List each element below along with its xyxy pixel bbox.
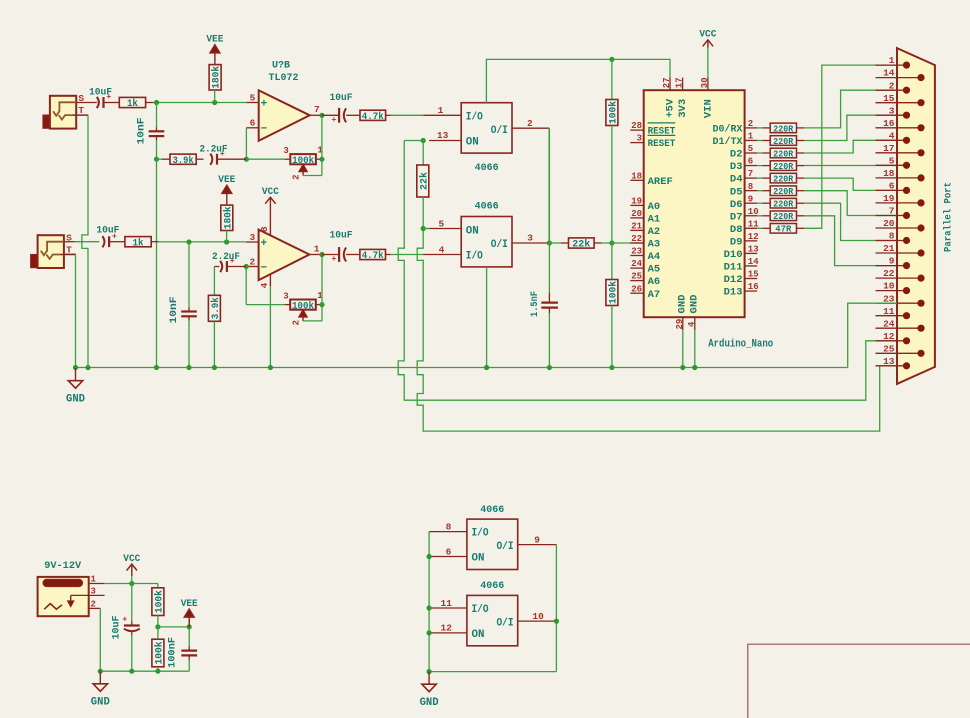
pin 30 - VIN: [700, 77, 715, 118]
resistor R2 180k (ch1 bias): [209, 65, 223, 90]
label C5 value 2.2uF: [200, 143, 228, 155]
pin 7 - U1 output: [310, 104, 322, 115]
analog switch U4 4066 (ch2): [461, 200, 512, 267]
svg-text:4: 4: [889, 130, 895, 141]
resistor R16 1k (ch2): [125, 237, 151, 250]
pin 4 - U2 V- supply: [259, 274, 271, 288]
svg-text:D0/RX: D0/RX: [713, 124, 744, 136]
node - spare tie junction y=608: [427, 605, 432, 610]
svg-text:6: 6: [446, 546, 452, 557]
svg-text:4: 4: [687, 321, 697, 327]
resistor R25 47R (D8 line): [770, 224, 796, 235]
pin 9 - parallel port: [876, 256, 911, 270]
resistor R22 220R (D5 line): [770, 186, 796, 197]
svg-text:14: 14: [748, 257, 759, 267]
wire - VEE node to R15: [157, 627, 159, 639]
wire - VEE symbol stem: [188, 617, 190, 627]
svg-text:A7: A7: [648, 289, 661, 301]
wire - 220R output stub: [797, 127, 805, 129]
wire - D2 net to port pin 4: [804, 140, 897, 153]
svg-text:24: 24: [883, 318, 895, 329]
node - ground rail junction x=549.4: [547, 365, 552, 370]
node - spare output junction: [554, 619, 559, 624]
resistor R8 3.9k (ch2): [208, 295, 222, 321]
pin 17 - 3V3: [675, 77, 690, 117]
wire - U1 output to C7: [322, 114, 339, 116]
wire - D6 pin to 220R: [757, 202, 770, 204]
svg-text:3: 3: [283, 291, 288, 301]
wire - GND pin 29 to rail: [682, 330, 684, 367]
pin 16 - parallel port: [876, 118, 925, 132]
svg-text:4.7k: 4.7k: [362, 111, 384, 123]
label C11 value 100nF: [166, 637, 178, 668]
svg-text:10uF: 10uF: [110, 616, 122, 640]
svg-text:+: +: [112, 232, 117, 241]
wire - C5 to feedback node: [217, 158, 246, 160]
wire - R11 to Arduino A3: [594, 242, 644, 244]
node - VEE junction right: [187, 624, 192, 629]
wire - D6 net to port pin 8: [804, 203, 897, 240]
svg-text:ON: ON: [472, 553, 485, 565]
capacitor C9 1.5nF: [541, 303, 558, 308]
wire - VCC symbol to node: [131, 576, 133, 583]
label C3 value 10nF: [136, 118, 148, 145]
capacitor C2 10uF (ch2 input coupling): [102, 232, 117, 247]
svg-text:13: 13: [748, 245, 759, 255]
wire - 220R output stub: [797, 215, 805, 217]
wire - C7 to R5: [346, 114, 360, 116]
wire - D1 pin to 220R: [757, 140, 770, 142]
pin 2 - U3 O/I output stub: [512, 118, 549, 129]
wire - RV2 pin3 stub: [285, 304, 291, 306]
wire - feedback to U1 output: [321, 115, 323, 159]
wire - 220R output stub: [797, 165, 805, 167]
svg-text:18: 18: [631, 171, 642, 181]
svg-text:220R: 220R: [773, 148, 793, 159]
svg-text:1: 1: [438, 105, 444, 116]
power symbol VCC (Arduino VIN): [699, 29, 717, 48]
wire - 220R output stub: [797, 140, 805, 142]
svg-text:24: 24: [631, 259, 642, 269]
wire - spare section ground link: [429, 671, 556, 673]
wire - R8 to ground rail: [213, 321, 215, 367]
wire - C1 to R1: [104, 102, 120, 104]
svg-text:O/I: O/I: [497, 541, 514, 553]
svg-text:100k: 100k: [154, 590, 166, 613]
resistor R3 3.9k (ch1): [170, 154, 196, 167]
wire - D7 net to port pin 9: [804, 216, 897, 266]
wire - control net B vertical (to parallel port pin 13) with hops: [417, 229, 897, 432]
svg-text:Arduino_Nano: Arduino_Nano: [708, 339, 773, 351]
analog switch U6 4066 (spare): [467, 504, 518, 570]
op-amp U2 TL072 unit A: [259, 230, 310, 281]
svg-text:11: 11: [441, 598, 453, 609]
pin 5 - Arduino D2: [730, 144, 757, 161]
svg-text:TL072: TL072: [269, 72, 299, 84]
svg-text:D10: D10: [724, 249, 743, 261]
svg-text:GND: GND: [690, 295, 701, 314]
svg-text:7: 7: [889, 206, 895, 217]
wire - U4 VSS down to ground rail: [486, 267, 488, 368]
pin 20 - Arduino A1: [630, 209, 660, 226]
wire - J4 sleeve to ground rail: [99, 608, 101, 671]
node - ground rail junction x=88: [85, 365, 90, 370]
ground symbol GND (input stage): [66, 368, 85, 406]
node - ch2 10nF junction: [186, 239, 191, 244]
svg-text:25: 25: [631, 272, 642, 282]
wire - ON net to left: [404, 140, 423, 142]
svg-text:+: +: [261, 98, 268, 110]
svg-text:30: 30: [700, 77, 710, 88]
svg-text:29: 29: [675, 319, 685, 330]
svg-text:9: 9: [748, 194, 753, 204]
wire - R1 to op-amp U1 noninverting input: [146, 102, 247, 104]
svg-text:2: 2: [889, 80, 895, 91]
pin 14 - Arduino D11: [724, 257, 760, 274]
wire - R16 to op-amp U2 +input: [151, 241, 246, 243]
svg-text:10nF: 10nF: [168, 297, 180, 324]
svg-text:4: 4: [259, 282, 270, 288]
svg-text:RESET: RESET: [648, 138, 676, 150]
pin 24 - parallel port: [876, 318, 925, 332]
wire - R15 to ground rail: [157, 667, 159, 671]
resistor R24 220R (D7 line): [770, 211, 796, 222]
svg-text:D11: D11: [724, 262, 743, 274]
svg-text:1.5nF: 1.5nF: [529, 291, 541, 317]
node - ch1 feedback left junction: [244, 157, 249, 162]
pin 13 - U3 ON control: [429, 130, 461, 141]
node - ground rail junction x=682.8: [680, 365, 685, 370]
wire - U1 inverting input to feedback node: [245, 128, 247, 159]
svg-text:GND: GND: [91, 697, 110, 709]
wire - U2 pin4 down to ground rail: [269, 286, 271, 368]
svg-text:+: +: [331, 116, 336, 125]
capacitor C6 2.2uF (ch2): [220, 257, 235, 272]
label C1 value 10uF: [89, 86, 112, 98]
node - supply ground junction x=157.9: [155, 669, 160, 674]
svg-text:2: 2: [291, 320, 301, 325]
pin 18 - parallel port: [876, 168, 925, 181]
wire - 220R output stub: [797, 202, 805, 204]
svg-text:I/O: I/O: [472, 604, 489, 616]
capacitor C8 10uF (ch2 output coupling): [331, 247, 346, 264]
node - ground rail junction x=694.8: [692, 365, 697, 370]
node - spare tie junction y=556.5: [427, 554, 432, 559]
svg-text:10uF: 10uF: [330, 229, 353, 241]
svg-text:VCC: VCC: [262, 186, 280, 198]
pin 13 - Arduino D10: [724, 245, 759, 262]
svg-text:D2: D2: [730, 149, 743, 161]
pin 1 - U2 output: [309, 243, 322, 254]
svg-text:15: 15: [883, 93, 895, 104]
svg-text:19: 19: [631, 197, 642, 207]
svg-text:100k: 100k: [154, 642, 166, 665]
pin 24 - Arduino A5: [630, 259, 660, 276]
svg-text:5: 5: [439, 218, 445, 229]
svg-text:22: 22: [883, 268, 895, 279]
pin 12 - Arduino D9: [730, 232, 759, 249]
power symbol VEE (ch2 bias): [218, 174, 235, 205]
audio jack connector J2 (channel 2 input): [31, 233, 76, 269]
svg-text:6: 6: [250, 118, 256, 129]
svg-text:13: 13: [883, 356, 895, 367]
pin 9 - Arduino D6: [730, 194, 757, 211]
svg-text:4.7k: 4.7k: [362, 250, 384, 262]
pin 3 - J4 switch: [71, 587, 105, 597]
svg-text:22: 22: [631, 234, 642, 244]
pin 22 - parallel port: [876, 268, 925, 282]
svg-text:A3: A3: [648, 239, 661, 251]
svg-text:10: 10: [748, 207, 759, 217]
ground symbol GND (spare switches): [420, 672, 439, 710]
wire - VEE node link: [158, 626, 189, 628]
wire - R2 to ch1 input node: [214, 90, 216, 103]
wire - VEE node down to C11: [188, 627, 190, 651]
pin 7 - Arduino D4: [730, 169, 757, 186]
svg-text:12: 12: [748, 232, 759, 242]
svg-text:8: 8: [259, 226, 270, 232]
wire - R14 to VEE node: [157, 616, 159, 627]
svg-text:+: +: [260, 238, 267, 250]
pin 6 - Arduino D3: [730, 157, 757, 174]
svg-text:12: 12: [883, 331, 895, 342]
svg-text:14: 14: [883, 68, 895, 79]
resistor R12 100k (divider top): [606, 100, 620, 126]
svg-text:100nF: 100nF: [166, 637, 178, 668]
resistor R1 1k: [119, 97, 145, 110]
node - supply ground junction x=131.8: [129, 669, 134, 674]
wire - VCC to VIN pin: [707, 48, 709, 78]
svg-text:2: 2: [292, 174, 302, 179]
wire - VCC node down to C10: [131, 584, 133, 622]
node - ground rail junction x=156.5: [154, 365, 159, 370]
svg-text:−: −: [261, 123, 268, 135]
resistor R11 22k: [569, 238, 595, 251]
resistor R10 4.7k (ch2): [360, 249, 386, 262]
wire - GND pin 4 to rail: [694, 330, 696, 367]
svg-text:3: 3: [889, 105, 895, 116]
resistor R13 100k (divider bottom): [606, 280, 620, 306]
svg-text:8: 8: [748, 182, 753, 192]
wire - 220R output stub: [797, 190, 805, 192]
pin 3 - U4 O/I output: [512, 233, 549, 244]
svg-text:18: 18: [883, 168, 895, 179]
svg-text:I/O: I/O: [472, 528, 489, 540]
wire - J1 sleeve S to C1: [76, 102, 97, 104]
svg-text:O/I: O/I: [497, 618, 514, 630]
svg-text:I/O: I/O: [466, 111, 483, 123]
svg-text:3.9k: 3.9k: [173, 155, 194, 167]
svg-text:10: 10: [532, 611, 544, 622]
wire - D8 pin to 47R: [757, 227, 770, 229]
svg-text:10: 10: [883, 281, 895, 292]
svg-text:22k: 22k: [572, 239, 590, 251]
pin 2 - J4 sleeve: [89, 600, 101, 610]
node - ground rail junction x=75.5: [73, 365, 78, 370]
wire - J2 sleeve to C2: [64, 241, 99, 243]
pin 21 - Arduino A2: [630, 222, 660, 239]
wire - R5 to switch U3 I/O: [386, 114, 424, 116]
svg-text:3: 3: [527, 233, 533, 244]
pin 11 - U7 I/O: [429, 598, 467, 609]
svg-text:220R: 220R: [773, 136, 793, 147]
wire - RV2 wiper return: [303, 305, 322, 321]
svg-text:D13: D13: [724, 287, 743, 299]
pin 1 - Arduino D1/TX: [713, 132, 758, 149]
pin 23 - Arduino A4: [630, 247, 660, 264]
svg-text:20: 20: [631, 209, 642, 219]
wire - C8 to R10: [346, 254, 360, 256]
wire - ch2 feedback vertical: [245, 267, 247, 305]
svg-text:4066: 4066: [480, 580, 504, 592]
pin 2 - U2 -input: [246, 256, 258, 267]
pin 9 - U6 O/I: [518, 534, 557, 545]
node - A3 / divider junction: [609, 240, 614, 245]
wire - 220R output stub: [797, 177, 805, 179]
wire - C6 to U2 -input: [227, 266, 246, 268]
node - ch1 3.9k node: [154, 157, 159, 162]
svg-text:4066: 4066: [480, 504, 504, 516]
node - U2 output junction: [319, 252, 324, 257]
pin 20 - parallel port: [876, 218, 925, 231]
svg-text:VCC: VCC: [699, 29, 717, 41]
svg-text:+: +: [331, 255, 336, 264]
resistor R21 220R (D4 line): [770, 173, 796, 184]
pin 27 - +5V: [662, 77, 677, 117]
svg-text:A0: A0: [648, 201, 661, 213]
svg-text:220R: 220R: [773, 199, 793, 210]
label C4 value 10nF: [168, 297, 180, 324]
analog switch U7 4066 (spare): [467, 580, 518, 646]
svg-text:4066: 4066: [475, 200, 499, 212]
svg-text:8: 8: [446, 521, 452, 532]
wire - D5 pin to 220R: [757, 190, 770, 192]
node - spare section ground junction: [427, 669, 432, 674]
wire - A3 node to R13: [611, 243, 613, 280]
wire - R10 to switch U4 I/O: [386, 254, 424, 256]
connector J4 barrel jack 9V-12V: [38, 560, 89, 616]
wire - R6 to U4 ON net: [422, 197, 424, 229]
node - VCC junction: [129, 581, 134, 586]
pin 5 - U4 ON control: [429, 218, 461, 229]
svg-text:6: 6: [889, 181, 895, 192]
svg-text:VCC: VCC: [123, 553, 141, 565]
power symbol VEE (ch1 bias): [206, 34, 223, 65]
svg-text:A2: A2: [648, 226, 661, 238]
svg-text:1: 1: [889, 55, 895, 66]
svg-text:7: 7: [748, 169, 753, 179]
wire - C6 left lead: [214, 266, 219, 268]
resistor R5 4.7k (ch1): [360, 110, 386, 123]
label C9 value 1.5nF: [529, 291, 541, 317]
pin 25 - Arduino A6: [630, 272, 660, 289]
svg-text:D9: D9: [730, 236, 743, 248]
wire - D8 strobe net to port pin 1: [804, 65, 897, 228]
svg-text:4066: 4066: [475, 162, 499, 174]
wire - U2 output to C8: [322, 254, 339, 256]
svg-text:GND: GND: [678, 295, 689, 314]
svg-text:27: 27: [662, 77, 672, 88]
svg-text:D8: D8: [730, 224, 743, 236]
pin 15 - Arduino D12: [724, 270, 759, 287]
svg-text:T: T: [78, 105, 84, 116]
wire - RV1 wiper return: [303, 159, 322, 175]
wire - RV2 pin1 stub: [316, 304, 322, 306]
svg-text:13: 13: [437, 130, 449, 141]
svg-text:3: 3: [249, 232, 255, 243]
connector J3 DB25 Parallel Port body: [897, 48, 955, 384]
wire - (overlap guard): [548, 128, 550, 243]
svg-text:23: 23: [631, 247, 642, 257]
svg-text:3V3: 3V3: [678, 99, 689, 118]
pin 8 - parallel port: [876, 231, 911, 244]
svg-text:1k: 1k: [127, 98, 138, 110]
wire - D5 net to port pin 7: [804, 191, 897, 216]
svg-text:ON: ON: [466, 225, 479, 237]
wire - 47R output stub: [797, 227, 805, 229]
svg-text:+: +: [106, 93, 111, 102]
node - ch2 feedback right junction: [319, 302, 324, 307]
capacitor C4 10nF (ch2): [181, 312, 197, 317]
pin 6 - parallel port: [876, 181, 911, 194]
pin 6 - U6 ON: [429, 546, 467, 557]
pin 22 - Arduino A3: [630, 234, 660, 251]
wire - J1 tip down to ground rail (with hop): [82, 115, 88, 367]
pin 5 - U1 +input: [246, 92, 258, 103]
wire - C6 down to R8: [213, 267, 215, 296]
power symbol VCC (U2 supply): [262, 186, 280, 204]
wire - supply ground rail: [100, 670, 189, 672]
node - ch1 feedback right junction: [319, 157, 324, 162]
svg-text:ON: ON: [472, 629, 485, 641]
svg-text:220R: 220R: [773, 174, 793, 185]
trimmer potentiometer RV1 100k (ch1 gain): [283, 145, 323, 180]
wire - spare switch right tie column: [555, 545, 557, 672]
svg-text:D4: D4: [730, 174, 743, 186]
node - +5V divider junction: [609, 57, 614, 62]
pin 15 - parallel port: [876, 93, 925, 106]
svg-text:9: 9: [534, 534, 540, 545]
resistor R20 220R (D3 line): [770, 161, 796, 172]
pin 4 - parallel port: [876, 130, 911, 144]
wire - node down to C3: [156, 103, 158, 132]
pin 18 - Arduino AREF: [630, 171, 673, 188]
svg-text:3: 3: [283, 146, 288, 156]
svg-text:1: 1: [748, 132, 754, 142]
pin 10 - parallel port: [876, 281, 911, 295]
pin 11 - Arduino D8: [730, 219, 759, 236]
svg-text:26: 26: [631, 284, 642, 294]
capacitor C7 10uF (ch1 output coupling): [331, 108, 346, 125]
svg-text:15: 15: [748, 270, 759, 280]
pin T - J2 tip stub: [64, 253, 76, 255]
svg-text:5: 5: [748, 144, 753, 154]
svg-text:17: 17: [675, 77, 685, 88]
wire - ch1 node down to ground rail: [156, 159, 158, 367]
wire - feedback node to trimmer RV1: [246, 158, 284, 160]
wire - feedback to U2 output: [321, 255, 323, 305]
svg-text:Parallel Port: Parallel Port: [943, 182, 955, 252]
wire - main ground rail: [76, 367, 848, 369]
node - ground rail junction x=214.4: [212, 365, 217, 370]
pin 17 - parallel port: [876, 143, 925, 157]
svg-text:11: 11: [883, 306, 895, 317]
ground symbol GND (supply): [91, 671, 110, 709]
svg-text:AREF: AREF: [648, 176, 673, 188]
resistor R6 22k: [417, 165, 431, 197]
svg-text:28: 28: [631, 121, 642, 131]
pin 25 - parallel port: [876, 343, 925, 357]
